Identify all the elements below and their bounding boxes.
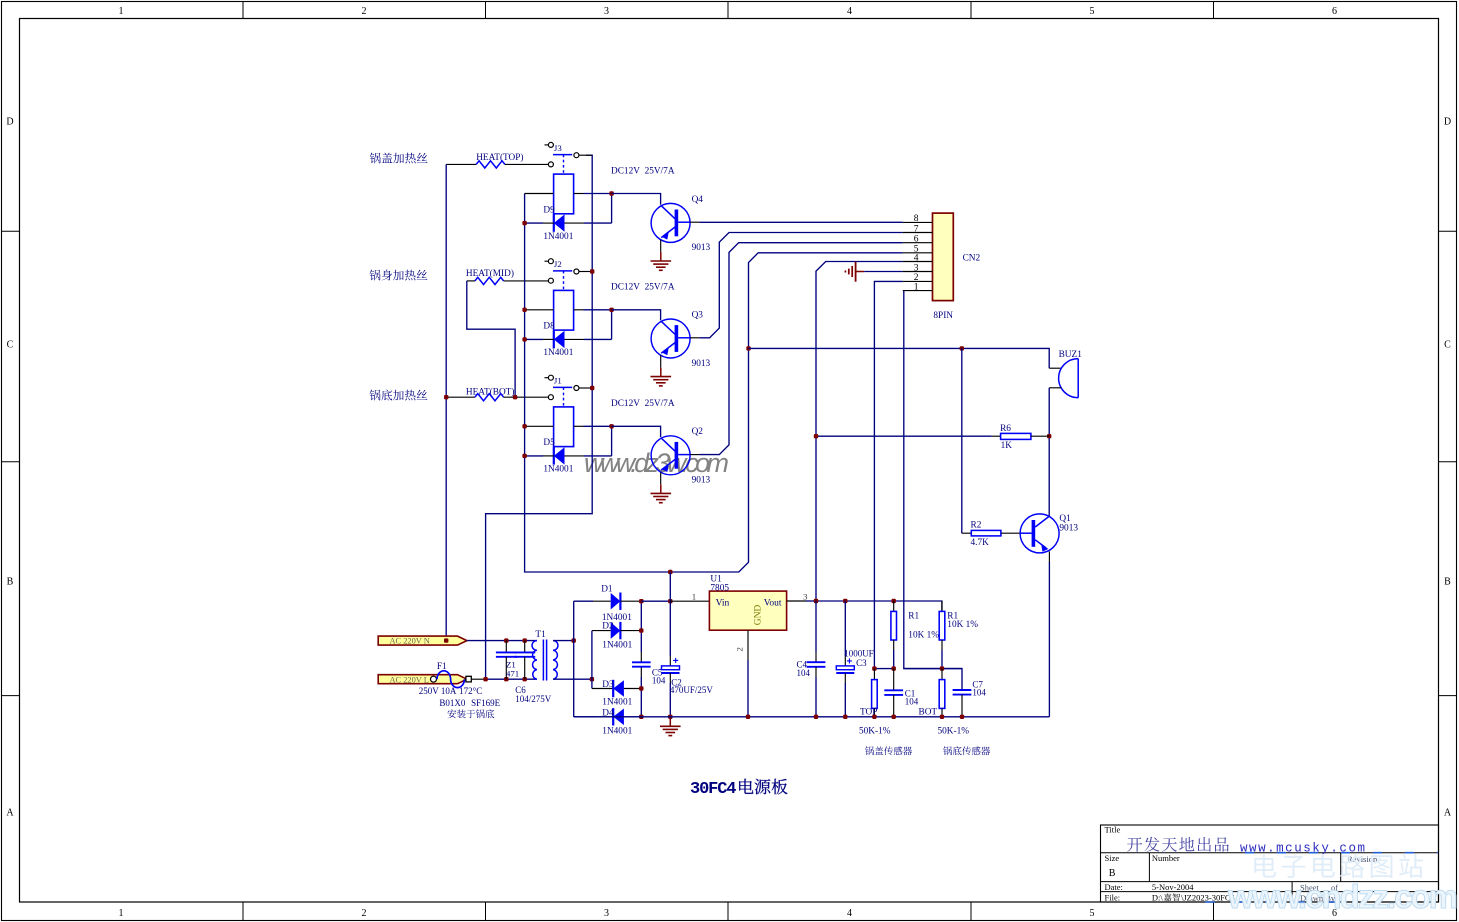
- wire +12 to C2: [669, 572, 671, 656]
- svg-text:J1: J1: [554, 376, 562, 386]
- svg-text:DC12V 25V/7A: DC12V 25V/7A: [611, 283, 675, 293]
- junction HEAT(BOT) right: [513, 395, 517, 399]
- svg-text:9013: 9013: [1059, 523, 1078, 533]
- wire buzzer feed: [749, 348, 1050, 368]
- svg-text:3: 3: [604, 908, 609, 919]
- capacitor C1 104: [893, 669, 895, 691]
- svg-text:GND: GND: [754, 605, 764, 626]
- svg-text:2: 2: [362, 6, 367, 17]
- capacitor C7 104: [953, 689, 972, 691]
- label pot-body heater: [370, 270, 381, 281]
- svg-text:1K: 1K: [1001, 441, 1013, 451]
- svg-text:104: 104: [652, 676, 666, 686]
- svg-text:www.cndzz.com: www.cndzz.com: [1227, 878, 1458, 915]
- svg-text:1N4001: 1N4001: [602, 641, 632, 651]
- resistor R1 (TOP) 10K: [893, 601, 895, 611]
- svg-text:104: 104: [905, 696, 919, 706]
- wire +5V rail: [816, 601, 942, 611]
- svg-text:A: A: [1444, 808, 1452, 819]
- wire D2 anode jog: [591, 631, 593, 689]
- svg-text:Date:: Date:: [1105, 882, 1123, 892]
- svg-text:CN2: CN2: [963, 253, 981, 263]
- port AC 220V N: [378, 636, 467, 645]
- junction +12V rail taps: [668, 570, 672, 574]
- svg-text:1N4001: 1N4001: [543, 465, 573, 475]
- svg-text:AC 220V L: AC 220V L: [390, 675, 429, 684]
- svg-text:7: 7: [914, 224, 919, 234]
- svg-text:B: B: [7, 577, 14, 588]
- wire heater-top left drop: [445, 164, 447, 640]
- svg-text:3: 3: [803, 591, 808, 601]
- svg-text:Q2: Q2: [692, 427, 704, 437]
- svg-text:2: 2: [735, 647, 745, 651]
- label bottom sensor: [943, 746, 952, 755]
- svg-text:1N4001: 1N4001: [602, 698, 632, 708]
- svg-text:104: 104: [972, 687, 986, 697]
- buzzer BUZ1: [1049, 367, 1061, 369]
- capacitor C6 104/275V: [524, 641, 526, 653]
- wire bridge left leg: [573, 601, 575, 717]
- svg-text:30FC4: 30FC4: [690, 780, 737, 799]
- hyperlink dashes on title lines: [1245, 852, 1438, 854]
- svg-text:10K 1%: 10K 1%: [947, 620, 978, 630]
- wire CN2 pin4 to +5V: [816, 262, 903, 602]
- svg-text:4: 4: [847, 6, 852, 17]
- relay coil D9: [554, 174, 574, 214]
- wire CN2 pin1 sensor BOT: [904, 291, 962, 690]
- svg-text:B: B: [1444, 577, 1451, 588]
- wire base Q3: [612, 310, 661, 320]
- wire Q1 emitter to ground rail: [1048, 551, 1050, 562]
- wire R6 row: [816, 435, 992, 437]
- svg-text:6: 6: [1332, 6, 1337, 17]
- svg-text:Q4: Q4: [692, 195, 704, 205]
- svg-text:D1: D1: [601, 585, 613, 595]
- connector CN2 8PIN: [933, 213, 954, 301]
- svg-text:T1: T1: [535, 630, 546, 640]
- svg-text:5: 5: [1090, 908, 1095, 919]
- ground Q4 emitter: [660, 252, 662, 261]
- svg-text:172°C: 172°C: [459, 686, 482, 696]
- svg-text:10K 1%: 10K 1%: [908, 631, 939, 641]
- junction R6 right: [1047, 434, 1051, 438]
- port AC 220V L: [378, 675, 467, 684]
- wire AC N: [467, 640, 537, 642]
- earth ground CN2 pin3: [856, 271, 865, 273]
- diode D3 1N4001: [592, 688, 613, 690]
- svg-text:470UF/25V: 470UF/25V: [670, 685, 714, 695]
- relay coil D8: [554, 290, 574, 330]
- svg-text:J2: J2: [554, 259, 562, 269]
- svg-text:4: 4: [847, 908, 852, 919]
- wire buzzer to R6/Q1: [1048, 388, 1050, 516]
- trimmer TOP 50K: [873, 669, 875, 680]
- regulator U1 7805: [670, 600, 709, 602]
- svg-text:Number: Number: [1152, 853, 1180, 863]
- svg-text:104: 104: [797, 668, 811, 678]
- wire Q2 collector to CN2 pin6: [699, 243, 903, 455]
- svg-text:1: 1: [914, 282, 919, 292]
- svg-text:D: D: [1444, 117, 1451, 128]
- junction R2 tap: [960, 346, 964, 350]
- title block: [1101, 825, 1439, 902]
- ground Q2 emitter: [660, 484, 662, 493]
- svg-text:471: 471: [506, 668, 519, 678]
- svg-text:5: 5: [1090, 6, 1095, 17]
- svg-text:C3: C3: [856, 658, 867, 668]
- capacitor C4 104: [815, 601, 817, 652]
- svg-text:R2: R2: [971, 520, 982, 530]
- wire Q3 collector to CN2 pin7: [699, 233, 903, 338]
- diode D5 flyback 1N4001: [553, 447, 555, 464]
- svg-text:AC 220V N: AC 220V N: [390, 637, 430, 646]
- svg-text:1: 1: [119, 6, 124, 17]
- junction heater common / HEAT(BOT): [444, 395, 448, 399]
- svg-text:4.7K: 4.7K: [971, 538, 990, 548]
- junction relay coil/diode: [609, 424, 613, 428]
- resistor R2 4.7K: [962, 532, 972, 534]
- svg-text:Vout: Vout: [764, 599, 782, 609]
- wire secondary top: [553, 640, 574, 642]
- wire heater-mid loop: [467, 281, 515, 397]
- svg-text:1N4001: 1N4001: [543, 232, 573, 242]
- trimmer BOT 50K: [941, 669, 943, 680]
- relay coil D5: [554, 407, 574, 447]
- svg-text:DC12V 25V/7A: DC12V 25V/7A: [611, 166, 675, 176]
- svg-text:DC12V 25V/7A: DC12V 25V/7A: [611, 399, 675, 409]
- svg-text:D5: D5: [543, 438, 555, 448]
- wire secondary bottom: [553, 678, 592, 680]
- capacitor C3 1000UF: [844, 601, 846, 656]
- svg-text:R6: R6: [1000, 424, 1011, 434]
- svg-text:BUZ1: BUZ1: [1059, 350, 1083, 360]
- svg-text:6: 6: [914, 235, 919, 245]
- junction relay coil/diode: [609, 191, 613, 195]
- junction pin4/R6: [814, 434, 818, 438]
- ground main: [668, 715, 672, 719]
- svg-text:J3: J3: [554, 143, 562, 153]
- svg-text:104/275V: 104/275V: [515, 694, 552, 704]
- svg-text:D8: D8: [543, 322, 555, 332]
- svg-text:50K-1%: 50K-1%: [938, 727, 970, 737]
- svg-text:R1: R1: [908, 612, 919, 622]
- svg-text:Title: Title: [1105, 825, 1121, 835]
- svg-text:D9: D9: [543, 205, 555, 215]
- wire AC L: [471, 678, 485, 680]
- varistor Z1 471: [505, 641, 507, 653]
- svg-text:File:: File:: [1105, 893, 1121, 903]
- svg-text:Vin: Vin: [716, 599, 730, 609]
- svg-text:SF169E: SF169E: [471, 698, 501, 708]
- svg-text:D:\: D:\: [1152, 893, 1164, 903]
- svg-text:3: 3: [604, 6, 609, 17]
- svg-text:C: C: [7, 340, 14, 351]
- diode D2 1N4001: [592, 630, 611, 632]
- relay contact J3: [545, 144, 549, 146]
- title block company name: [1127, 837, 1142, 851]
- svg-text:1N4001: 1N4001: [543, 348, 573, 358]
- svg-text:1: 1: [119, 908, 124, 919]
- relay contact J1: [545, 377, 549, 379]
- diode D9 flyback 1N4001: [553, 214, 555, 231]
- wire to R2: [961, 348, 963, 533]
- svg-text:D2: D2: [602, 622, 614, 632]
- diode D1 1N4001: [593, 600, 611, 602]
- wire TOP sensor node: [874, 668, 893, 670]
- watermark cndzz blue: [1254, 854, 1276, 877]
- svg-text:2: 2: [362, 908, 367, 919]
- svg-text:50K-1%: 50K-1%: [859, 727, 891, 737]
- svg-text:8PIN: 8PIN: [933, 311, 953, 321]
- svg-text:Size: Size: [1105, 853, 1120, 863]
- wire relay +12V common: [525, 194, 903, 573]
- resistor R6 1K: [992, 435, 1001, 437]
- resistor R1 (BOT) 10K: [941, 601, 943, 611]
- svg-text:D3: D3: [602, 680, 614, 690]
- transistor Q4 9013: [651, 203, 690, 242]
- svg-text:3: 3: [914, 263, 919, 273]
- junction N/heater drop: [444, 638, 448, 642]
- relay contact J2: [545, 260, 549, 262]
- label pot-bottom heater: [370, 390, 381, 401]
- wire switched-live common: [486, 155, 593, 679]
- wire Vin feed: [641, 600, 670, 602]
- svg-text:B01X0: B01X0: [439, 698, 466, 708]
- transistor Q3 9013: [651, 319, 690, 358]
- svg-text:1: 1: [692, 591, 696, 601]
- svg-text:9013: 9013: [692, 243, 711, 253]
- wire base Q4: [612, 194, 661, 205]
- svg-text:8: 8: [914, 214, 919, 224]
- label pot-lid heater: [370, 153, 381, 164]
- wire U1 gnd pin2: [747, 630, 749, 660]
- transistor Q1 9013: [1020, 514, 1059, 553]
- svg-text:HEAT(TOP): HEAT(TOP): [476, 152, 523, 163]
- svg-text:www.dz3w.com: www.dz3w.com: [584, 448, 729, 478]
- label lid sensor: [865, 746, 874, 755]
- wire base Q2: [612, 426, 661, 437]
- wire DC+ vertical: [640, 601, 642, 652]
- svg-text:Q3: Q3: [692, 310, 704, 320]
- wire ground rail: [574, 716, 1050, 718]
- svg-text:4: 4: [914, 253, 919, 263]
- wire U1 Vout: [787, 600, 806, 602]
- junction relay coil/diode: [609, 308, 613, 312]
- transistor Q2 9013: [651, 436, 690, 475]
- wire CN2 pin2 sensor TOP: [874, 281, 902, 668]
- svg-text:9013: 9013: [692, 476, 711, 486]
- svg-text:B: B: [1109, 868, 1116, 879]
- svg-text:7805: 7805: [710, 583, 729, 593]
- capacitor C5 104: [632, 661, 651, 663]
- diode D4 1N4001: [597, 716, 613, 718]
- svg-text:250V 10A: 250V 10A: [419, 686, 457, 696]
- wire Q4 collector to CN2 pin8: [699, 221, 903, 223]
- svg-text:A: A: [6, 808, 14, 819]
- wire BOT sensor node: [903, 668, 962, 670]
- svg-text:5-Nov-2004: 5-Nov-2004: [1152, 882, 1194, 892]
- svg-text:D: D: [6, 117, 13, 128]
- svg-text:BOT: BOT: [919, 707, 938, 717]
- ground Q3 emitter: [660, 368, 662, 377]
- diode D8 flyback 1N4001: [553, 331, 555, 348]
- svg-text:C: C: [1444, 340, 1451, 351]
- svg-text:1N4001: 1N4001: [602, 727, 632, 737]
- svg-text:9013: 9013: [692, 359, 711, 369]
